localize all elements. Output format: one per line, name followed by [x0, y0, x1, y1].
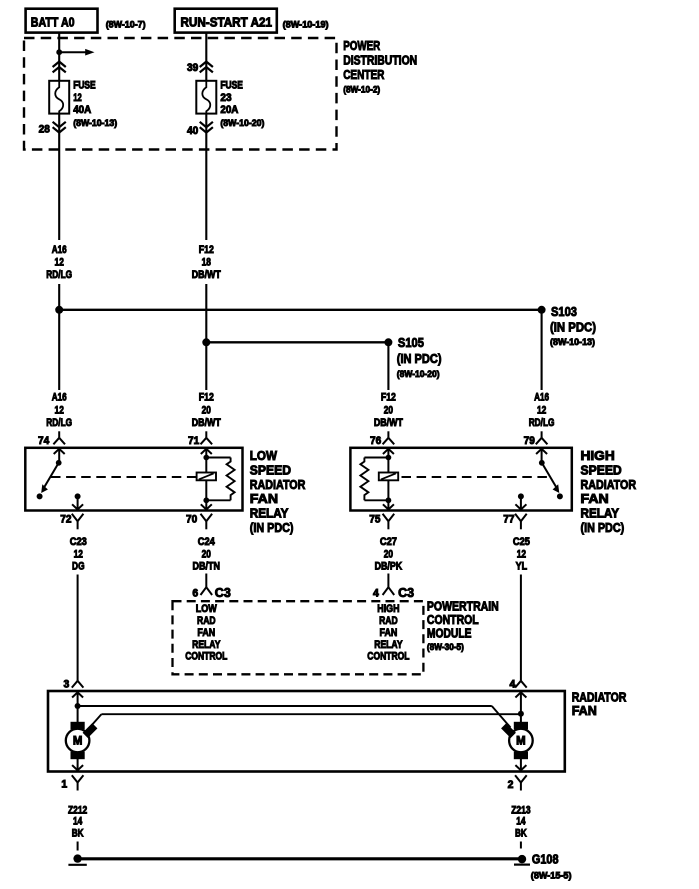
label G108 (8W-15-5)	[531, 852, 572, 882]
label POWER DISTRIBUTION CENTER	[343, 38, 417, 96]
svg-text:F12: F12	[199, 392, 214, 404]
wire F12 to splice S105	[205, 284, 207, 342]
wire label C27 20 DB/PK	[375, 536, 403, 573]
relay K1 coil suppression resistor	[206, 458, 234, 501]
wire label Z212 14 BK	[68, 805, 87, 840]
svg-text:20: 20	[384, 549, 393, 561]
svg-text:RD/LG: RD/LG	[46, 417, 72, 429]
wire Z212 to ground G108	[77, 842, 79, 851]
svg-text:A16: A16	[52, 392, 67, 404]
svg-text:12: 12	[74, 549, 83, 561]
pin 71 connector	[188, 431, 212, 447]
svg-text:20: 20	[384, 404, 393, 416]
wire A16 to splice S103	[58, 284, 60, 310]
node splice on battery feed	[56, 49, 62, 55]
svg-text:CENTER: CENTER	[343, 67, 385, 82]
svg-text:RELAY: RELAY	[374, 639, 403, 651]
fuse F12 (FUSE 12 40A)	[49, 81, 69, 114]
wire label C25 12 YL	[513, 536, 530, 573]
motor M1 left radiator fan motor	[66, 722, 97, 758]
relay K2 switch common node	[539, 460, 545, 466]
fan pin 3 entry	[72, 692, 83, 722]
svg-text:(IN PDC): (IN PDC)	[250, 520, 294, 535]
wire label A16 12 RD/LG (to pin 74)	[46, 392, 72, 429]
svg-text:A16: A16	[52, 244, 67, 256]
wire C23 to radiator fan pin 3	[77, 575, 79, 681]
relay K1 coil node top	[203, 455, 209, 461]
svg-text:(8W-10-20): (8W-10-20)	[397, 369, 440, 380]
wire C24 to PCM pin 6	[205, 574, 207, 588]
svg-text:4: 4	[373, 588, 379, 600]
svg-text:(8W-30-5): (8W-30-5)	[427, 642, 464, 653]
svg-text:F12: F12	[381, 392, 396, 404]
pin 40 of fuse 23	[187, 122, 213, 137]
svg-text:CONTROL: CONTROL	[185, 651, 228, 663]
svg-text:77: 77	[503, 513, 514, 525]
svg-text:(IN PDC): (IN PDC)	[550, 320, 596, 335]
label HIGH RAD FAN RELAY CONTROL	[367, 603, 410, 663]
relay K1 switch arm	[37, 463, 59, 500]
svg-text:4: 4	[510, 679, 516, 691]
label (8W-10-19)	[283, 20, 329, 31]
motor M2 ground exit	[515, 759, 526, 771]
wire crossover motor1-feed to motor2 high terminal	[78, 706, 511, 728]
svg-text:(8W-10-7): (8W-10-7)	[106, 20, 146, 31]
svg-text:LOW: LOW	[250, 448, 278, 463]
svg-text:RADIATOR: RADIATOR	[581, 477, 637, 492]
wire BATT A0 to fuse 12	[58, 33, 60, 81]
relay K1 low speed radiator fan relay box	[25, 448, 242, 511]
relay K2 switch arm	[542, 463, 563, 500]
svg-text:DB/WT: DB/WT	[374, 417, 403, 429]
svg-text:39: 39	[187, 62, 198, 74]
svg-text:M: M	[73, 736, 83, 748]
pin 1 connector	[61, 775, 83, 790]
label FUSE 23 20A (8W-10-20)	[220, 80, 264, 130]
svg-text:12: 12	[517, 549, 526, 561]
wire label F12 20 DB/WT (to pin 71)	[192, 392, 221, 429]
svg-text:BATT A0: BATT A0	[31, 14, 75, 29]
motor M2 right radiator fan motor	[502, 722, 533, 758]
pin 76 connector	[370, 431, 394, 447]
wire fuse 12 to splice S103	[58, 114, 60, 240]
relay K1 pin 70 exit	[201, 500, 212, 509]
svg-text:RAD: RAD	[197, 615, 216, 627]
svg-text:(8W-10-2): (8W-10-2)	[343, 85, 380, 96]
wire S105 to high speed relay pin 76	[387, 342, 389, 390]
fuse F23 (FUSE 23 20A)	[196, 81, 216, 114]
node fan motor 1 feed	[75, 703, 81, 709]
relay K1 pin 71 entry	[201, 449, 212, 458]
pin 70 connector	[186, 513, 212, 529]
connector RUN-START A21	[175, 9, 277, 33]
wire label C23 12 DG	[70, 536, 87, 573]
relay K1 pin 74 entry	[54, 449, 65, 463]
svg-text:6: 6	[192, 588, 198, 600]
motor M1 ground exit	[72, 759, 83, 771]
svg-text:12: 12	[73, 92, 82, 104]
relay K2 coil node bottom	[386, 497, 392, 503]
ground symbol left	[68, 854, 86, 864]
svg-text:23: 23	[220, 92, 231, 104]
svg-text:FAN: FAN	[572, 703, 597, 718]
relay K2 coil mechanical link (dashed)	[402, 476, 549, 478]
svg-text:(8W-10-13): (8W-10-13)	[73, 118, 117, 129]
wire fuse 23 down	[205, 114, 207, 240]
pin 79 connector	[524, 431, 548, 447]
label POWERTRAIN CONTROL MODULE (8W-30-5)	[427, 598, 499, 653]
svg-text:POWER: POWER	[343, 38, 380, 53]
relay K2 coil node top	[386, 455, 392, 461]
pin 39 of fuse 23	[187, 62, 213, 74]
relay K2 pin 76 entry	[383, 449, 394, 458]
svg-text:FUSE: FUSE	[73, 80, 96, 92]
radiator fan assembly box	[48, 691, 565, 772]
wire Z213 to ground G108	[520, 842, 522, 849]
wire S103 to low speed relay pin 74	[58, 310, 60, 390]
svg-text:DB/TN: DB/TN	[193, 561, 221, 573]
svg-text:12: 12	[537, 404, 546, 416]
svg-text:CONTROL: CONTROL	[367, 651, 410, 663]
svg-text:18: 18	[202, 257, 211, 269]
svg-text:DB/PK: DB/PK	[375, 561, 403, 573]
wire label A16 12 RD/LG (battery feed)	[46, 244, 72, 281]
svg-text:RELAY: RELAY	[581, 506, 620, 521]
relay K1 switch common node	[56, 460, 62, 466]
svg-text:FAN: FAN	[250, 491, 278, 506]
relay K1 coil node bottom	[203, 497, 209, 503]
relay K2 pin 77 contact	[515, 493, 526, 509]
node fan motor 2 feed	[518, 711, 524, 717]
pin 75 connector	[369, 513, 394, 529]
pin 6 connector C3	[192, 585, 230, 600]
svg-text:RELAY: RELAY	[192, 639, 221, 651]
svg-text:71: 71	[188, 435, 199, 447]
svg-text:RAD: RAD	[379, 615, 398, 627]
relay K2 pin 75 exit	[383, 500, 394, 509]
pin 4 connector C3	[373, 585, 414, 600]
wire label A16 12 RD/LG (to pin 79)	[529, 392, 555, 429]
ground bus wire	[78, 857, 521, 860]
svg-text:RUN-START A21: RUN-START A21	[181, 14, 273, 29]
label FUSE 12 40A (8W-10-13)	[73, 80, 117, 130]
svg-text:20: 20	[202, 549, 211, 561]
svg-text:1: 1	[61, 779, 67, 791]
svg-text:SPEED: SPEED	[581, 462, 622, 477]
svg-text:2: 2	[508, 779, 514, 791]
svg-text:FUSE: FUSE	[220, 80, 243, 92]
pin 4 connector (fan)	[510, 679, 527, 691]
svg-text:BK: BK	[515, 827, 527, 839]
svg-text:(8W-10-19): (8W-10-19)	[283, 20, 329, 31]
svg-text:M: M	[516, 736, 526, 748]
svg-text:C24: C24	[198, 536, 215, 548]
svg-text:C27: C27	[380, 536, 397, 548]
wire C27 to PCM pin 4	[387, 574, 389, 588]
svg-text:14: 14	[516, 816, 525, 828]
svg-text:40A: 40A	[73, 104, 91, 116]
relay K2 pin 79 entry	[536, 449, 547, 463]
relay K2 coil suppression resistor	[360, 458, 388, 501]
relay K1 coil mechanical link (dashed)	[51, 476, 197, 478]
svg-text:76: 76	[370, 435, 381, 447]
svg-text:S103: S103	[551, 304, 577, 319]
fan pin 4 entry	[515, 692, 526, 722]
svg-text:RADIATOR: RADIATOR	[250, 477, 306, 492]
svg-text:G108: G108	[532, 852, 559, 867]
svg-text:FAN: FAN	[581, 491, 609, 506]
svg-text:(8W-10-20): (8W-10-20)	[220, 118, 264, 129]
svg-text:RD/LG: RD/LG	[46, 269, 72, 281]
wire label F12 18 DB/WT (run-start feed)	[192, 244, 221, 281]
svg-text:DB/WT: DB/WT	[192, 417, 221, 429]
wire RUN-START A21 to fuse 23	[205, 33, 207, 81]
svg-text:C3: C3	[215, 585, 231, 600]
svg-text:(IN PDC): (IN PDC)	[581, 520, 625, 535]
svg-text:(8W-10-13): (8W-10-13)	[550, 337, 595, 348]
svg-text:(8W-15-5): (8W-15-5)	[531, 871, 572, 882]
svg-text:70: 70	[186, 513, 197, 525]
ground G108 symbol	[514, 855, 530, 865]
svg-text:FAN: FAN	[380, 627, 398, 639]
pin 28 of fuse 12	[39, 122, 66, 136]
inline connector chevrons above fuse 12	[53, 62, 66, 73]
powertrain control module box (dashed)	[173, 601, 424, 674]
pin 2 connector	[508, 775, 527, 791]
svg-text:12: 12	[55, 404, 64, 416]
wire C25 to radiator fan pin 4	[520, 575, 522, 681]
svg-text:DG: DG	[72, 561, 85, 573]
svg-text:F12: F12	[199, 244, 214, 256]
svg-text:20: 20	[202, 404, 211, 416]
svg-text:14: 14	[73, 816, 82, 828]
wire crossover motor1 high terminal to motor2 feed	[91, 714, 521, 726]
splice S103 bus	[55, 306, 545, 314]
wire label Z213 14 BK	[511, 805, 530, 840]
power distribution center box (dashed)	[24, 38, 337, 150]
svg-text:HIGH: HIGH	[581, 448, 615, 463]
label HIGH SPEED RADIATOR FAN RELAY (IN PDC)	[581, 448, 637, 535]
svg-text:72: 72	[60, 513, 71, 525]
svg-text:S105: S105	[398, 335, 424, 350]
svg-text:79: 79	[524, 435, 535, 447]
svg-text:BK: BK	[72, 827, 84, 839]
svg-text:MODULE: MODULE	[427, 626, 472, 641]
svg-text:RELAY: RELAY	[250, 506, 289, 521]
relay K1 pin 72 contact	[72, 493, 83, 509]
svg-text:RD/LG: RD/LG	[529, 417, 555, 429]
svg-text:C3: C3	[398, 585, 414, 600]
svg-text:(IN PDC): (IN PDC)	[397, 351, 442, 366]
label LOW RAD FAN RELAY CONTROL	[185, 603, 228, 663]
svg-text:SPEED: SPEED	[250, 462, 291, 477]
svg-text:12: 12	[55, 257, 64, 269]
wire S103 to high speed relay pin 79	[541, 310, 543, 390]
svg-text:28: 28	[39, 124, 50, 136]
pin 77 connector	[503, 513, 526, 529]
svg-text:DB/WT: DB/WT	[192, 269, 221, 281]
svg-text:3: 3	[64, 678, 70, 690]
arrow feed to other circuits	[59, 49, 94, 56]
label S105 (IN PDC) (8W-10-20)	[397, 335, 442, 380]
connector BATT A0	[26, 9, 98, 33]
svg-text:74: 74	[38, 435, 49, 447]
pin 3 connector	[64, 678, 84, 690]
pin 74 connector	[38, 431, 65, 447]
svg-text:DISTRIBUTION: DISTRIBUTION	[343, 52, 417, 67]
wire S105 to low speed relay pin 71	[205, 342, 207, 390]
label (8W-10-7)	[106, 20, 146, 31]
relay K2 high speed radiator fan relay box	[350, 448, 571, 511]
svg-text:A16: A16	[534, 392, 549, 404]
svg-text:YL: YL	[516, 561, 528, 573]
svg-text:HIGH: HIGH	[377, 603, 399, 615]
wire label C24 20 DB/TN	[193, 536, 221, 573]
svg-text:LOW: LOW	[196, 603, 218, 615]
wire label F12 20 DB/WT (to pin 76)	[374, 392, 403, 429]
svg-text:FAN: FAN	[197, 627, 215, 639]
relay K1 coil	[197, 458, 216, 501]
label S103 (IN PDC) (8W-10-13)	[550, 304, 596, 348]
svg-text:C25: C25	[513, 536, 530, 548]
svg-text:40: 40	[187, 125, 198, 137]
splice S105 bus	[202, 338, 392, 346]
pin 72 connector	[60, 513, 83, 529]
label LOW SPEED RADIATOR FAN RELAY (IN PDC)	[250, 448, 306, 535]
relay K2 coil	[379, 458, 398, 501]
label RADIATOR FAN	[572, 690, 627, 718]
svg-text:20A: 20A	[220, 104, 238, 116]
svg-text:75: 75	[369, 513, 380, 525]
svg-text:C23: C23	[70, 536, 87, 548]
